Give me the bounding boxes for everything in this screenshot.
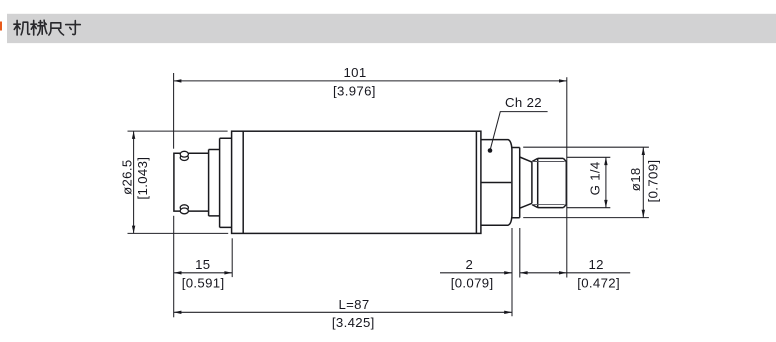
12 dimension line with right tail: [520, 272, 630, 274]
2: outside arrows pointing inward: [504, 271, 512, 274]
hex Ch22 outline: [481, 140, 512, 226]
15 dimension: right ext + dim line: [231, 238, 233, 277]
svg-text:15: 15: [195, 257, 210, 272]
connector pins (white filled): [180, 151, 188, 214]
svg-text:[3.976]: [3.976]: [333, 84, 376, 99]
dia 18 up / down: [642, 147, 645, 155]
sealing washer face (2mm): [512, 148, 520, 218]
2 dimension ext lines: [512, 228, 520, 316]
orange accent sliver at left edge: [0, 22, 2, 31]
glyph ji: [14, 20, 30, 35]
G 1/4 dimension line: [605, 157, 607, 207]
glyph cun: [66, 21, 81, 35]
G 1/4 extension lines: [567, 157, 611, 207]
Ch 22 leader: [490, 112, 548, 151]
arrowheads: [132, 79, 645, 314]
svg-text:G 1/4: G 1/4: [588, 161, 603, 195]
thread root thin lines: [532, 162, 565, 205]
thread OD top/bottom: [538, 158, 564, 207]
body left cap line: [242, 131, 244, 233]
main cylindrical body: [232, 131, 481, 233]
body right cap line: [475, 131, 477, 233]
G 1/4 up / down: [604, 157, 607, 165]
hex middle edge: [481, 182, 511, 184]
bottom pin: [180, 205, 188, 211]
diameter 18 dimension line: [642, 147, 644, 217]
ring1 small collar: [209, 150, 220, 216]
svg-text:101: 101: [343, 65, 366, 80]
15 left / right: [174, 271, 182, 274]
diameter 26.5 extension lines: [128, 131, 229, 233]
svg-text:12: 12: [589, 257, 604, 272]
dia 26.5 up / down: [132, 131, 135, 139]
svg-text:ø18: ø18: [628, 167, 643, 191]
thread runout line: [537, 158, 539, 207]
svg-text:[0.472]: [0.472]: [577, 276, 620, 291]
thread chamfers left: [532, 158, 538, 207]
header text 机械尺寸 (drawn as paths): [14, 20, 80, 35]
svg-text:[0.709]: [0.709]: [646, 160, 661, 203]
L=87 dimension line: [174, 311, 512, 313]
svg-text:[3.425]: [3.425]: [332, 315, 375, 330]
svg-text:L=87: L=87: [338, 297, 369, 312]
svg-text:[1.043]: [1.043]: [135, 157, 150, 200]
cone transitions to thread undercut: [520, 157, 532, 208]
svg-text:2: 2: [465, 257, 473, 272]
diameter 18 extension lines: [523, 147, 649, 217]
glyph xie: [31, 20, 47, 35]
ring2 collar: [220, 138, 232, 227]
header bar: [7, 14, 776, 43]
ring2 face: [219, 138, 221, 227]
connector plug body: [174, 153, 209, 211]
connector/ring1 left face: [208, 150, 210, 216]
thread chamfers right + end face: [563, 158, 566, 207]
L=87 left / right: [174, 311, 182, 314]
101 left / right: [174, 79, 182, 82]
svg-text:[0.591]: [0.591]: [182, 276, 225, 291]
leader dot: [488, 148, 493, 153]
12 right arrow: [559, 271, 567, 274]
svg-text:[0.079]: [0.079]: [451, 276, 494, 291]
lower left extension line: [173, 216, 175, 317]
diameter 26.5 dimension line: [133, 131, 135, 233]
top pin: [180, 155, 188, 161]
undercut groove wall: [531, 162, 533, 203]
101 dimension line: [174, 80, 567, 82]
101 extension lines: [173, 73, 175, 149]
2 dimension line with tail: [440, 272, 512, 274]
svg-text:ø26.5: ø26.5: [120, 159, 135, 194]
glyph chi: [49, 23, 64, 35]
svg-text:Ch 22: Ch 22: [505, 95, 542, 110]
